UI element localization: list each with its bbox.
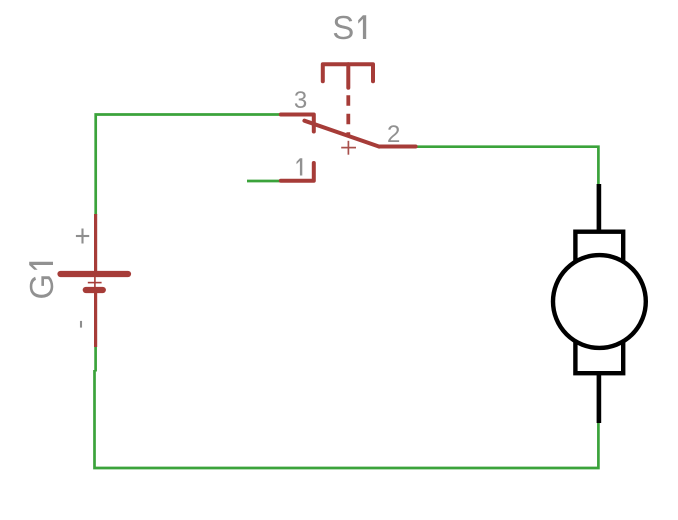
switch S1 pin 2 <box>379 145 415 149</box>
wire bottom loop <box>95 370 599 468</box>
switch S1 button stem <box>346 64 350 87</box>
wire switch pin2 to motor <box>416 147 599 186</box>
battery G1 negative pin <box>94 293 97 347</box>
battery G1 plus label <box>76 229 89 244</box>
motor M1 bottom brush rectangle <box>575 339 623 373</box>
battery G1 minus label <box>80 321 82 328</box>
switch S1 pin 1 <box>281 163 314 181</box>
svg-text:S: S <box>332 9 354 46</box>
battery G1 long positive plate <box>61 271 129 277</box>
switch S1 lever <box>304 121 379 147</box>
switch S1 dashed actuator line <box>346 95 350 136</box>
switch S1 button bracket <box>323 64 373 81</box>
wire battery- down left side <box>94 347 97 372</box>
wire battery+ to switch pin3 (top-left) <box>96 115 281 216</box>
switch pin label 1 <box>297 158 303 175</box>
motor M1 body circle <box>553 255 646 348</box>
switch S1 center plus mark <box>341 141 356 155</box>
motor M1 top pin <box>597 184 602 232</box>
motor M1 top brush rectangle <box>575 232 623 266</box>
svg-text:2: 2 <box>387 121 400 148</box>
motor M1 bottom pin <box>597 373 602 423</box>
switch S1 pin 3 <box>281 115 314 132</box>
battery G1 short negative plate <box>86 287 103 293</box>
wire stub at switch pin1 <box>247 180 281 183</box>
battery G1 positive pin <box>94 214 97 272</box>
svg-text:G: G <box>23 274 60 300</box>
svg-text:3: 3 <box>294 87 307 114</box>
battery G1 small plus mark <box>88 282 102 284</box>
